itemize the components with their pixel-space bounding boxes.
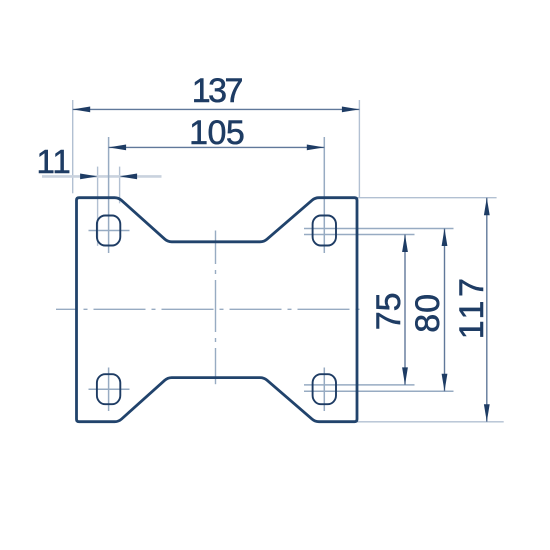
hole top-left (slot)	[97, 216, 120, 246]
svg-text:80: 80	[409, 294, 447, 333]
arrow 80 bottom	[442, 374, 448, 392]
plate outline	[77, 198, 358, 422]
crosshair hole bottom-right vertical	[323, 368, 325, 412]
ext line 117 bottom	[357, 421, 504, 423]
ext line 11 left	[97, 167, 99, 246]
ext line 75 bottom (from bottom-right hole)	[304, 384, 415, 386]
arrow 137 left	[73, 107, 91, 113]
hole top-right (slot)	[313, 216, 336, 246]
crosshair hole bottom-left vertical	[108, 368, 110, 412]
arrow 105 left	[109, 145, 127, 151]
svg-text:117: 117	[453, 278, 491, 339]
ext line 137 right	[358, 100, 360, 198]
arrow 75 bottom	[402, 367, 408, 385]
crosshair hole bottom-left horizontal	[89, 388, 130, 390]
arrow 105 right	[307, 145, 325, 151]
ext line 137 left	[72, 100, 74, 193]
svg-text:137: 137	[192, 72, 244, 110]
ext line 75 top (from top-right hole)	[304, 234, 415, 236]
arrowheads	[73, 107, 490, 422]
dim line 75	[404, 235, 406, 385]
hole centre crosshairs	[89, 137, 454, 411]
dim line 137	[73, 108, 360, 110]
svg-text:105: 105	[189, 114, 245, 152]
svg-text:75: 75	[370, 292, 408, 330]
arrow 137 right	[342, 107, 360, 113]
light extension / centre lines layer	[73, 100, 504, 422]
dim line 80	[444, 229, 446, 392]
hole bottom-right (slot)	[313, 374, 336, 404]
arrow 75 top	[402, 235, 408, 253]
ext line 80 bottom (from bottom-right hole)	[304, 390, 454, 392]
centreline vertical (dash-dot)	[215, 231, 217, 385]
dim line 117	[486, 198, 488, 422]
arrow 117 bottom	[484, 404, 490, 422]
arrow 11 right (outside, points left)	[120, 174, 138, 180]
svg-text:11: 11	[37, 143, 71, 180]
ext line 105 left (through top-left hole)	[108, 137, 110, 253]
centreline horizontal (dash-dot)	[56, 308, 361, 310]
ext line 11 right	[119, 167, 121, 204]
ext line 117 top	[357, 197, 497, 199]
dimension lines (medium)	[73, 109, 487, 421]
crosshair hole top-left horizontal	[89, 230, 130, 232]
dimension line 11 (light wide line)	[42, 175, 162, 178]
ext line 105 right (through top-right hole)	[323, 137, 325, 253]
ext line 80 top (from top-right hole)	[304, 228, 454, 230]
dim line 105	[109, 146, 325, 148]
arrow 117 top	[484, 198, 490, 216]
arrow 11 left (outside, points right)	[80, 174, 98, 180]
arrow 80 top	[442, 229, 448, 247]
hole bottom-left (slot)	[97, 374, 120, 404]
